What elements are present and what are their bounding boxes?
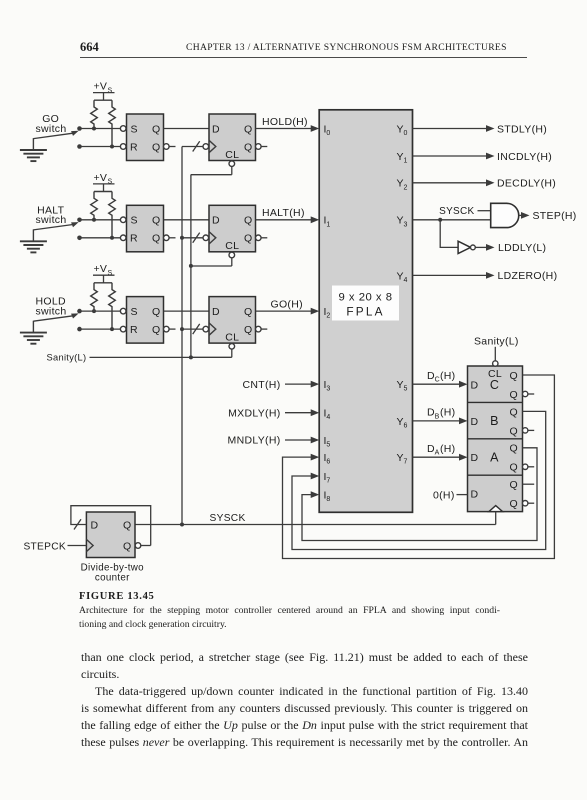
wire SYSCK clock bus (vertical) [181, 147, 183, 525]
svg-text:Q: Q [152, 141, 160, 153]
power +Vs (row 3) [93, 263, 115, 283]
svg-text:CL: CL [225, 149, 239, 161]
flip-flop D flip-flop 3 (falling-edge D-FF) [203, 297, 267, 344]
ground (HALT switch) [20, 229, 47, 252]
svg-text:LDZERO(H): LDZERO(H) [498, 270, 558, 282]
wire input MXDLY(H) to FPLA [228, 407, 319, 419]
svg-text:INCDLY(H): INCDLY(H) [497, 151, 552, 163]
svg-text:+V: +V [94, 81, 108, 93]
svg-text:C: C [490, 378, 499, 392]
svg-text:counter: counter [95, 572, 130, 583]
svg-text:STEPCK: STEPCK [23, 541, 66, 552]
svg-text:DECDLY(H): DECDLY(H) [497, 178, 556, 190]
svg-text:Q: Q [244, 141, 252, 153]
wire divide-by-two feedback Qbar to D [71, 506, 151, 546]
svg-text:CL: CL [225, 331, 239, 343]
svg-text:GO(H): GO(H) [271, 299, 303, 311]
wire Sanity(L) from label [90, 356, 191, 358]
clock edge triangle (stack) [489, 506, 503, 512]
wire S line (row 3) [80, 310, 121, 312]
power +Vs (row 1) [93, 81, 115, 101]
switch label HALT switch [36, 204, 67, 226]
svg-text:Q: Q [152, 306, 160, 318]
svg-text:Q: Q [244, 123, 252, 135]
node junction resistor-S (row 2) [92, 218, 96, 222]
svg-text:R: R [130, 141, 138, 153]
svg-text:Sanity(L): Sanity(L) [474, 336, 519, 348]
svg-text:S: S [108, 179, 113, 186]
svg-text:(H): (H) [440, 443, 455, 455]
svg-text:+V: +V [94, 172, 108, 184]
ground (HOLD switch) [20, 321, 47, 344]
wire clock tap from SYSCK bus (row 3) [182, 324, 203, 334]
svg-text:D: D [212, 215, 220, 227]
wire output INCDLY(H) [413, 151, 553, 163]
svg-text:Q: Q [510, 498, 518, 510]
wire SYSCK to AND gate [439, 206, 491, 217]
switch label HOLD switch [36, 296, 67, 318]
svg-text:D: D [212, 123, 220, 135]
flip-flop state cell B [471, 406, 518, 437]
svg-text:Q: Q [123, 519, 131, 531]
wire latch Q to D input (row 3) [164, 310, 210, 312]
page number 664 [80, 40, 99, 55]
latch SR latch 2 (set-reset debounce latch) [120, 205, 175, 252]
wire clock tap from SYSCK bus (row 2) [182, 233, 203, 243]
wire R line (row 1) [80, 146, 121, 148]
svg-text:(H): (H) [440, 407, 455, 419]
node switch contact S (row 1) [77, 126, 82, 131]
wire R line (row 3) [80, 328, 121, 330]
resistor pull-up on R line (row 1) [109, 100, 116, 146]
switch label GO switch [36, 113, 67, 135]
wire output GO(H) to FPLA input I2 [256, 299, 320, 315]
figure caption [79, 591, 155, 602]
svg-text:Q: Q [244, 306, 252, 318]
svg-text:Q: Q [244, 215, 252, 227]
svg-text:D: D [212, 306, 220, 318]
wire CL clear to Sanity bus (row 3) [191, 344, 235, 358]
svg-text:Q: Q [152, 123, 160, 135]
svg-text:R: R [130, 324, 138, 336]
wire S line (row 2) [80, 219, 121, 221]
node Y3 branch [438, 218, 442, 222]
svg-text:STEP(H): STEP(H) [533, 210, 577, 222]
wire feedback B.Q to I7 [292, 411, 546, 549]
flip-flop D flip-flop 1 (falling-edge D-FF) [203, 114, 267, 161]
resistor pull-up on R line (row 3) [109, 283, 116, 329]
wire STEP(H) output [519, 210, 577, 222]
wire Y->DB(H) into cell B [413, 407, 468, 425]
svg-text:Q: Q [152, 324, 160, 336]
node junction resistor-R (row 1) [110, 145, 114, 149]
svg-text:D: D [471, 452, 479, 464]
svg-text:MNDLY(H): MNDLY(H) [228, 435, 281, 447]
wire feedback A.Q to I8 [302, 448, 537, 541]
svg-text:SYSCK: SYSCK [439, 206, 474, 217]
svg-text:Q: Q [510, 406, 518, 418]
svg-text:DA: DA [427, 443, 440, 457]
svg-text:CL: CL [225, 240, 239, 252]
bubble Qbar (cell A) [523, 464, 535, 469]
wire output DECDLY(H) [413, 178, 557, 190]
wire SYSCK net [135, 512, 496, 525]
inverter G2 [458, 241, 475, 253]
wire CL clear to Sanity bus (row 2) [191, 252, 235, 266]
svg-text:S: S [131, 306, 138, 318]
flip-flop D flip-flop 2 (falling-edge D-FF) [203, 205, 267, 252]
wire Y3 branch down to inverter [440, 220, 458, 248]
wire feedback C.Q to I6 [283, 375, 555, 559]
wire latch Q to D input (row 2) [164, 219, 210, 221]
svg-text:Q: Q [510, 425, 518, 437]
bubble Qbar (cell dummy) [523, 501, 535, 506]
node switch contact S (row 2) [77, 218, 82, 223]
wire LDDLY(L) output [475, 242, 546, 254]
node clock bus to row3 [180, 327, 184, 331]
node junction resistor-S (row 3) [92, 309, 96, 313]
wire input CNT(H) to FPLA [243, 379, 320, 391]
node sanity bus junction [189, 355, 193, 359]
svg-text:R: R [130, 233, 138, 245]
svg-text:HALT(H): HALT(H) [262, 207, 305, 219]
svg-text:(H): (H) [440, 370, 455, 382]
wire Y->DA(H) into cell A [413, 443, 468, 461]
flip-flop state cell C [471, 370, 518, 401]
wire output STDLY(H) [413, 123, 548, 135]
svg-text:switch: switch [36, 123, 67, 135]
FPLA U4 9x20x8 [319, 110, 412, 513]
register stack (state flip-flops C,B,A and dummy) [468, 366, 523, 512]
svg-text:Q: Q [244, 324, 252, 336]
svg-text:D: D [471, 416, 479, 428]
wire CL clear to Sanity bus (row 1) [191, 161, 235, 175]
wire Q stub (dummy cell) [523, 483, 535, 485]
node junction resistor-S (row 1) [92, 127, 96, 131]
wire output HALT(H) to FPLA input I1 [256, 207, 320, 223]
bubble Qbar (cell B) [523, 428, 535, 433]
node junction resistor-R (row 2) [110, 236, 114, 240]
svg-text:LDDLY(L): LDDLY(L) [498, 242, 546, 254]
svg-text:Q: Q [510, 462, 518, 474]
and-gate G1 [491, 203, 519, 227]
node junction resistor-R (row 3) [110, 327, 114, 331]
svg-text:STDLY(H): STDLY(H) [497, 123, 547, 135]
node switch contact R (row 3) [77, 327, 82, 332]
wire Sanity bus (vertical) [190, 175, 192, 358]
svg-text:A: A [490, 451, 499, 465]
svg-text:switch: switch [36, 214, 67, 226]
wire Y3 to AND gate [413, 219, 491, 221]
node switch contact S (row 3) [77, 309, 82, 314]
wire output LDZERO(H) [413, 270, 558, 282]
bubble Qbar (cell C) [523, 391, 535, 396]
svg-text:9 x 20 x 8: 9 x 20 x 8 [339, 292, 393, 304]
wire Y->DC(H) into cell C [413, 370, 468, 388]
flip-flop divide-by-two counter [86, 512, 150, 558]
svg-text:Q: Q [152, 233, 160, 245]
wire STEPCK input [23, 541, 86, 552]
svg-text:MXDLY(H): MXDLY(H) [228, 407, 280, 419]
resistor pull-up on S line (row 3) [91, 283, 98, 311]
switch HALT (SPDT arm) [33, 222, 78, 230]
svg-text:0(H): 0(H) [433, 489, 455, 501]
node SYSCK to clock bus [180, 523, 184, 527]
node clock bus to row2 [180, 236, 184, 240]
svg-text:D: D [471, 489, 479, 501]
svg-text:Q: Q [510, 443, 518, 455]
resistor pull-up on R line (row 2) [109, 192, 116, 238]
svg-text:CNT(H): CNT(H) [243, 379, 281, 391]
latch SR latch 1 (set-reset debounce latch) [120, 114, 175, 161]
node switch contact R (row 2) [77, 236, 82, 241]
flip-flop state cell LSB dummy [471, 479, 518, 510]
wire Sanity(L) to stack CL [474, 336, 519, 367]
svg-text:switch: switch [36, 305, 67, 317]
svg-text:Q: Q [510, 389, 518, 401]
svg-text:FPLA: FPLA [346, 305, 384, 319]
svg-text:HOLD(H): HOLD(H) [262, 116, 308, 128]
svg-text:S: S [131, 123, 138, 135]
wire output HOLD(H) to FPLA input I0 [256, 116, 320, 132]
wire clock tap from SYSCK bus (row 1) [182, 141, 203, 151]
svg-text:Q: Q [244, 233, 252, 245]
svg-text:DC: DC [427, 370, 440, 384]
svg-text:S: S [131, 215, 138, 227]
running head chapter title [186, 42, 507, 53]
wire S line (row 1) [80, 128, 121, 130]
wire latch Q to D input (row 1) [164, 128, 210, 130]
switch HOLD (SPDT arm) [33, 313, 78, 321]
ground (GO switch) [20, 138, 47, 161]
power +Vs (row 2) [93, 172, 115, 192]
svg-text:D: D [91, 519, 99, 531]
wire R line (row 2) [80, 237, 121, 239]
svg-text:Sanity(L): Sanity(L) [47, 353, 87, 363]
svg-text:SYSCK: SYSCK [210, 513, 246, 524]
wire input MNDLY(H) to FPLA [228, 435, 320, 447]
resistor pull-up on S line (row 2) [91, 192, 98, 220]
svg-text:Q: Q [510, 479, 518, 491]
latch SR latch 3 (set-reset debounce latch) [120, 297, 175, 344]
svg-text:Q: Q [510, 370, 518, 382]
svg-text:Q: Q [123, 540, 131, 552]
svg-text:B: B [490, 414, 499, 428]
wire 0(H) into dummy cell [433, 489, 468, 501]
label divide-by-two counter [81, 563, 144, 584]
flip-flop state cell A [471, 443, 518, 474]
node sanity bus to row2 [189, 264, 193, 268]
svg-text:DB: DB [427, 407, 440, 421]
svg-text:D: D [471, 379, 479, 391]
switch GO (SPDT arm) [33, 131, 78, 139]
svg-text:+V: +V [94, 263, 108, 275]
node switch contact R (row 1) [77, 144, 82, 149]
svg-text:Q: Q [152, 215, 160, 227]
body text [81, 649, 528, 751]
resistor pull-up on S line (row 1) [91, 100, 98, 128]
header rule [80, 57, 527, 58]
